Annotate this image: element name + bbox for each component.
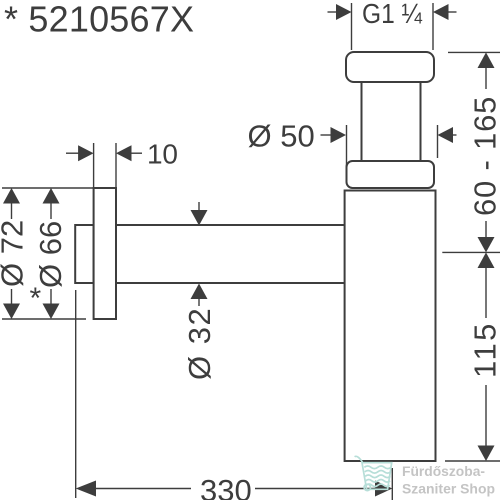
middle extension line	[442, 251, 500, 253]
dimension 10 extension line right	[115, 143, 117, 187]
horizontal pipe bottom edge	[116, 282, 345, 284]
dimension 115 up arrow	[478, 252, 495, 268]
dimension 10 right arrow	[116, 145, 132, 161]
svg-text:10: 10	[147, 139, 178, 170]
svg-text:Ø 66: Ø 66	[33, 221, 68, 288]
svg-text:* 5210567X: * 5210567X	[4, 0, 194, 40]
horizontal pipe top edge	[116, 224, 345, 226]
dimension O32 up arrow	[191, 284, 208, 300]
svg-text:Ø 50: Ø 50	[248, 119, 315, 154]
dimension O50 extension line left	[346, 125, 348, 169]
thread pipe	[362, 82, 421, 161]
dimension 115 bottom extension line	[445, 460, 500, 462]
dimension G1 1/4 extension line left	[351, 3, 353, 50]
dimension O50 right arrow	[438, 127, 454, 143]
dimension G1 1/4 left arrow	[328, 11, 339, 13]
svg-text:*: *	[30, 282, 42, 315]
bottom nut	[347, 161, 435, 188]
dimension 330 right extension line	[391, 468, 393, 500]
dimension 10 left arrow	[66, 152, 80, 154]
svg-text:330: 330	[200, 473, 252, 500]
dimension 60-165 lower line	[485, 221, 487, 239]
dimension G1 1/4 right arrow	[433, 4, 449, 20]
dimension O72/O66 top extension line	[2, 187, 94, 189]
dimension O50 extension line right	[437, 125, 439, 158]
dimension O72 up arrow	[3, 188, 20, 204]
dimension O32 down arrow	[198, 202, 200, 212]
dimension O50 left arrow	[321, 134, 333, 136]
dimension O72/O66 bottom extension line	[2, 318, 86, 320]
dimension O66 down arrow	[50, 289, 52, 305]
dimension 330 right arrow	[255, 488, 377, 490]
svg-text:Fürdőszoba-: Fürdőszoba-	[402, 463, 485, 479]
svg-text:Ø 72: Ø 72	[0, 220, 29, 287]
svg-text:60 - 165: 60 - 165	[468, 96, 500, 216]
svg-text:Ø 32: Ø 32	[182, 307, 217, 380]
svg-text:Szaniter Shop: Szaniter Shop	[402, 481, 495, 497]
top nut	[346, 52, 434, 82]
dimension 10 extension line left	[93, 143, 95, 187]
dimension 60-165 down arrow	[478, 237, 495, 252]
flange	[94, 188, 116, 319]
dimension 330 left extension line	[75, 290, 77, 498]
dimension O66 up arrow	[43, 188, 60, 204]
wall stub	[75, 225, 93, 283]
svg-text:115: 115	[468, 321, 500, 378]
dimension 330 left arrow	[76, 481, 96, 497]
dimension G1 1/4 extension line right	[432, 3, 434, 50]
dimension 60-165 top extension line	[448, 51, 500, 53]
dimension 60-165 up arrow	[478, 52, 495, 68]
svg-text:G1 ¼: G1 ¼	[362, 0, 423, 29]
watermark logo basket	[355, 456, 392, 490]
dimension 115 down arrow	[478, 446, 495, 462]
body	[345, 191, 436, 462]
dimension 115 lower line	[485, 385, 487, 447]
dimension O72 down arrow	[11, 289, 13, 305]
